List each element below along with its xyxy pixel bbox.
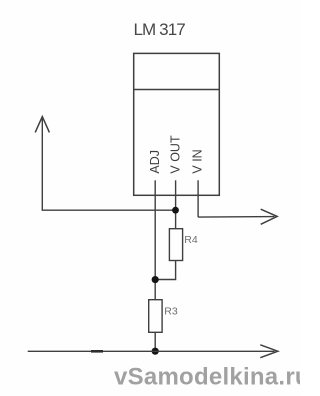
wire R3 bottom to ground rail [154,332,156,351]
wire bottom rail [28,350,275,352]
wire V OUT pin vertical (x=175.6) from inside box down to R4 top [175,180,177,228]
op-amp U1 internal divider line [134,89,220,91]
wire V IN pin vertical (x=198.1) from inside box down to bend [197,180,199,217]
svg-text:V IN: V IN [190,149,204,173]
arrowhead up (left output arrow) [35,117,49,133]
arrowhead right (bottom rail arrow) [260,345,278,358]
arrowhead right (V IN output arrow) [261,209,278,224]
wire ADJ pin vertical (x=155.2) from inside box down to R3 top [154,180,156,299]
wire R4 bottom to ADJ node (down then left) [155,261,175,280]
op-amp U1 body (regulator box) [134,53,220,195]
node junction dot at V OUT / adjust feed [172,207,179,214]
svg-text:LM 317: LM 317 [134,20,186,39]
svg-text:vSamodelkina.ru: vSamodelkina.ru [114,364,300,391]
wire horizontal from left arrow to V OUT node [42,209,176,211]
svg-text:ADJ: ADJ [148,150,162,174]
svg-text:V OUT: V OUT [169,135,183,174]
svg-text:R3: R3 [164,306,178,318]
wire bottom rail thick blemish [91,350,103,353]
node junction dot on bottom rail [152,348,159,355]
node junction dot ADJ / R4 / R3 [152,276,159,283]
resistor R4 body [169,229,182,261]
resistor R3 body [149,300,162,333]
svg-text:R4: R4 [184,234,198,246]
wire left arrow vertical (x=42.3) [41,117,43,210]
wire V IN horizontal run to output arrow [198,216,274,219]
